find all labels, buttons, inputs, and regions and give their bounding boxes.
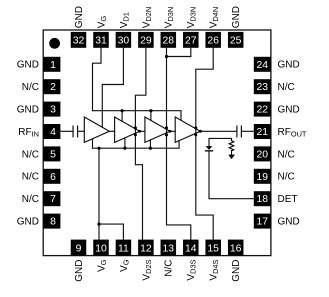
svg-text:14: 14 <box>185 243 197 254</box>
wire detector rail <box>209 138 232 146</box>
capacitor C2 output DC block plate 1 <box>236 126 237 138</box>
svg-text:23: 23 <box>257 82 269 93</box>
pin 17 pad <box>254 214 271 229</box>
svg-text:20: 20 <box>257 149 269 160</box>
svg-text:N/C: N/C <box>22 194 39 205</box>
junction dot A4 source <box>194 133 197 136</box>
pin 12 pad <box>138 240 154 256</box>
svg-text:17: 17 <box>257 217 269 228</box>
pin 16 pad <box>228 240 244 256</box>
svg-text:N/C: N/C <box>278 172 295 183</box>
pin 31 pad <box>93 32 109 48</box>
amplifier stage A1 <box>84 117 109 142</box>
wire R1 to ground arrow <box>231 151 233 155</box>
diode D1 detector triangle <box>206 146 213 150</box>
pin 10 pad <box>93 240 109 256</box>
wire RFIN pin4 to C1 <box>60 130 73 132</box>
svg-text:25: 25 <box>230 36 242 47</box>
svg-text:13: 13 <box>163 243 175 254</box>
svg-text:30: 30 <box>118 36 130 47</box>
svg-text:VG: VG <box>96 16 108 29</box>
wire VG stub to A3 source <box>149 140 151 148</box>
svg-text:16: 16 <box>230 243 242 254</box>
pin 19 pad <box>254 169 271 184</box>
svg-text:DET: DET <box>278 194 298 205</box>
wire VG stub to A2 source <box>124 138 126 148</box>
pin 7 pad <box>43 191 60 206</box>
pin 1 pad <box>43 57 60 72</box>
junction dot bottom bus A3 <box>149 147 152 150</box>
svg-text:8: 8 <box>50 217 56 228</box>
wire C2 to RFOUT pin21 <box>241 130 253 132</box>
wire VG bus to pin10 <box>98 148 100 239</box>
pin 26 pad <box>205 32 221 48</box>
svg-text:21: 21 <box>257 127 269 138</box>
svg-text:29: 29 <box>140 36 152 47</box>
pin 4 pad <box>43 124 60 139</box>
wire VD3N pin28 down <box>166 48 168 57</box>
wire VD3 bias column through A3 to pin14 <box>167 57 191 240</box>
amplifier stage A4 <box>175 117 200 142</box>
pin 9 pad <box>71 240 87 256</box>
svg-text:VD3N: VD3N <box>186 7 198 28</box>
svg-text:4: 4 <box>50 127 56 138</box>
svg-text:GND: GND <box>74 260 85 282</box>
wire VG top bus <box>93 111 182 121</box>
wire A2 output to A3 input <box>140 130 145 132</box>
junction dot VD3N tie <box>165 55 168 58</box>
diode D1 cathode bar <box>205 150 213 151</box>
amplifier stage A3 <box>145 117 170 142</box>
svg-text:GND: GND <box>278 105 300 116</box>
junction dot A2 source <box>134 133 137 136</box>
svg-text:RFOUT: RFOUT <box>278 127 307 139</box>
svg-text:N/C: N/C <box>22 149 39 160</box>
svg-text:19: 19 <box>257 172 269 183</box>
svg-text:N/C: N/C <box>164 260 175 277</box>
svg-text:VD2S: VD2S <box>141 259 153 280</box>
svg-text:N/C: N/C <box>22 172 39 183</box>
pin 23 pad <box>254 79 271 94</box>
pin 24 pad <box>254 57 271 72</box>
wire VG pin31 to top bus <box>93 48 102 111</box>
junction dot bottom bus A2 <box>123 147 126 150</box>
pin 11 pad <box>116 240 131 256</box>
junction dot A2 apex <box>138 130 141 133</box>
wire A3 output to A4 input <box>170 130 175 132</box>
svg-text:18: 18 <box>257 194 269 205</box>
svg-text:32: 32 <box>73 36 85 47</box>
svg-text:12: 12 <box>140 243 152 254</box>
wire VD4N pin26 to A4 bias column <box>196 48 213 240</box>
svg-text:VG: VG <box>119 259 131 272</box>
pin 28 pad <box>161 32 177 48</box>
wire VG stub to A2 drain <box>121 111 123 122</box>
svg-text:3: 3 <box>50 105 56 116</box>
svg-text:GND: GND <box>278 217 300 228</box>
pin 5 pad <box>43 146 60 161</box>
svg-text:VD2N: VD2N <box>141 7 153 28</box>
svg-text:N/C: N/C <box>278 82 295 93</box>
svg-text:11: 11 <box>118 243 129 254</box>
pin 22 pad <box>254 102 271 117</box>
svg-text:VD4S: VD4S <box>209 259 221 280</box>
svg-text:27: 27 <box>185 36 197 47</box>
svg-text:VD3N: VD3N <box>164 7 176 28</box>
pin 8 pad <box>43 214 60 229</box>
svg-text:28: 28 <box>163 36 175 47</box>
svg-text:22: 22 <box>257 105 269 116</box>
wire VG stub to A3 drain <box>150 111 152 121</box>
pin 32 pad <box>71 32 87 48</box>
svg-text:GND: GND <box>17 105 39 116</box>
svg-text:GND: GND <box>17 217 39 228</box>
svg-text:5: 5 <box>50 149 56 160</box>
svg-text:24: 24 <box>257 60 269 71</box>
svg-text:1: 1 <box>50 60 56 71</box>
junction dot A3 drain <box>165 126 168 129</box>
pin 21 pad <box>254 124 271 139</box>
wire VD1 pin30 to A1 <box>102 48 123 128</box>
svg-text:2: 2 <box>50 82 56 93</box>
pin 13 pad <box>161 240 177 256</box>
package outline <box>43 30 271 256</box>
svg-text:31: 31 <box>95 36 107 47</box>
amplifier stage A2 <box>115 117 140 142</box>
svg-text:GND: GND <box>74 6 85 28</box>
svg-text:GND: GND <box>278 60 300 71</box>
pin 20 pad <box>254 146 271 161</box>
junction dot A2 drain <box>134 126 137 129</box>
pin 1 marker dot <box>49 38 60 49</box>
junction dot A4 drain <box>194 126 197 129</box>
capacitor C1 input DC block plate 1 <box>72 126 73 138</box>
junction dot A3 source <box>165 133 168 136</box>
capacitor C1 input DC block plate 2 <box>77 126 78 138</box>
svg-text:RFIN: RFIN <box>18 127 39 139</box>
svg-text:VD1: VD1 <box>119 12 131 28</box>
capacitor C2 output DC block plate 2 <box>241 126 242 138</box>
svg-text:15: 15 <box>207 243 219 254</box>
junction dot A3 apex <box>169 130 172 133</box>
svg-text:GND: GND <box>231 260 242 282</box>
pin 25 pad <box>228 32 244 48</box>
svg-text:10: 10 <box>95 243 107 254</box>
pin 3 pad <box>43 102 60 117</box>
wire A1 output to A2 input <box>109 130 114 132</box>
pin 27 pad <box>183 32 199 48</box>
svg-text:VD4N: VD4N <box>209 7 221 28</box>
svg-text:9: 9 <box>76 243 82 254</box>
pin 29 pad <box>138 32 154 48</box>
pin 6 pad <box>43 169 60 184</box>
wire C1 to A1 input <box>78 130 85 132</box>
wire VG bottom bus <box>93 139 180 148</box>
wire D1 cathode to DET pin18 <box>209 151 254 198</box>
svg-text:7: 7 <box>50 194 56 205</box>
wire VD3N tie pins 28-27 <box>167 56 191 58</box>
svg-text:26: 26 <box>207 36 219 47</box>
ground arrow <box>228 155 235 160</box>
svg-text:GND: GND <box>17 60 39 71</box>
junction dot VG bus A3 <box>149 109 152 112</box>
pin 15 pad <box>205 240 221 256</box>
svg-text:N/C: N/C <box>22 82 39 93</box>
junction dot A4 apex <box>199 130 202 133</box>
wire VG branch to pin11 <box>99 224 123 240</box>
svg-text:GND: GND <box>231 6 242 28</box>
pin 18 pad <box>254 191 271 206</box>
svg-text:6: 6 <box>50 172 56 183</box>
pin 30 pad <box>116 32 131 48</box>
wire VD2N pin29 to A2 bias column <box>135 48 146 240</box>
wire VD3N pin27 down <box>190 48 192 57</box>
junction dot VG bus A2 <box>121 109 124 112</box>
junction dot pin10-11 branch <box>97 223 100 226</box>
svg-text:VG: VG <box>96 259 108 272</box>
resistor R1 zigzag <box>229 141 234 151</box>
svg-text:N/C: N/C <box>278 149 295 160</box>
wire A4 output to C2 <box>200 130 237 132</box>
svg-text:VD3S: VD3S <box>186 259 198 280</box>
pin 2 pad <box>43 79 60 94</box>
junction dot bottom bus pin10 <box>97 147 100 150</box>
pin 14 pad <box>183 240 199 256</box>
